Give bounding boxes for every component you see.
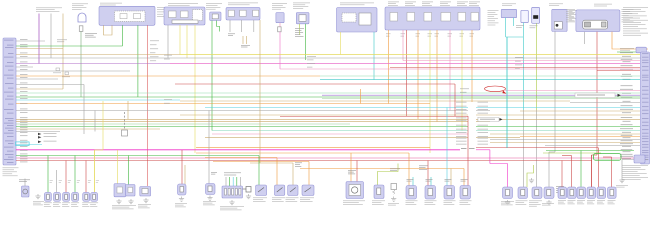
switch s1 [390,13,398,22]
washer pump M1 [503,187,513,199]
injector J2 label [425,201,437,205]
wire [427,161,429,186]
wire [506,36,523,38]
coil P3 pin [580,190,584,196]
sensor S1 pin [521,190,525,196]
coil P5 pin [600,190,604,196]
wire [408,153,410,186]
coil P2 label [568,200,576,204]
map lamp inner [142,189,148,194]
green highlight rect [594,154,622,161]
ground G313 [619,178,624,183]
lamp connector L5 [83,192,90,201]
switch bank title [388,2,480,6]
wire [258,156,260,186]
connector C3 [296,13,309,24]
sensor S2 pin [535,190,539,196]
wire [208,111,210,184]
injector connector J3 [444,186,455,200]
wire [463,169,465,186]
wire [612,32,648,49]
sensor B2 pin [377,188,381,195]
mid wire labels col F [164,99,172,103]
sensor S2 label [529,201,542,207]
coil connector P2 [568,187,577,199]
left module PCM [3,38,16,165]
ground G310 [505,200,510,205]
injector J4 pin [463,189,468,196]
lamp connector L4 [72,192,79,201]
wire [505,18,507,37]
wire [446,108,448,186]
relay K3 mark [290,188,296,193]
wire stub labels [556,186,564,193]
wire [122,25,124,46]
switch s2 [407,13,415,22]
wire [24,179,26,187]
wire labels [461,179,468,181]
switch s5 [458,13,466,22]
wire [571,156,573,188]
wire [596,32,598,155]
left module pin labels [4,40,14,163]
wire label [211,172,217,174]
wire [436,30,438,122]
module U3 inner b [359,13,371,25]
switch wire labels [386,34,474,37]
washer pump label [501,201,514,205]
wire cluster labels [419,166,428,170]
courtesy lamp E1 mark [23,189,28,194]
lamp B10 [78,13,86,22]
injector J1 label [406,201,418,205]
ground G302 [116,199,121,204]
wire [430,177,432,186]
wire [378,164,399,186]
injector J4 label [460,201,472,205]
lamp E1 label [19,180,30,182]
wire [38,14,40,64]
wire [56,170,58,192]
wire [146,25,148,186]
wire [611,157,613,187]
resistor R1 link [243,188,247,190]
coil P2 pin [570,190,574,196]
wire [184,165,186,184]
wire [229,20,231,32]
lamp L4 label [71,203,79,207]
coil P4 label [587,200,595,204]
switch s4 [441,13,451,22]
splice S2 [62,72,70,77]
right module wire labels [620,52,633,159]
wire label [295,163,302,167]
left module bottom note [3,168,19,177]
lamp B10 label [72,4,88,10]
wire [536,110,538,187]
page ref text top right [623,7,648,36]
coil P1 label [558,200,566,204]
relay K4 [302,185,314,196]
wire [584,32,586,44]
ground G308 [246,194,251,199]
wire [617,51,636,53]
mid wire labels col B [307,56,316,67]
switch bank [385,7,480,30]
fuse under C2 [278,27,281,32]
wire [179,25,181,55]
twisted pair outline [16,142,30,146]
wire [117,150,119,184]
sensor U4 dot [556,24,559,27]
injector J2 pin [428,189,433,196]
wire label [241,45,250,47]
wire label [77,180,80,183]
wire [429,30,431,153]
module U2 title [168,3,198,5]
gray wire inline label [478,117,503,121]
relay contact 1 [120,14,127,19]
wire [513,18,515,26]
ground G313 label [616,185,628,187]
wire [591,155,593,187]
module U2 inner c [193,10,203,21]
wire [62,14,64,90]
wire [74,156,76,193]
wire [549,151,555,153]
ground G309 [391,197,396,202]
coil P5 label [597,200,605,204]
wire [548,152,550,187]
wire [292,163,294,185]
ground G306 [207,196,212,201]
injector connector J2 [425,186,436,200]
wire [16,144,42,146]
dome lamp assembly [114,184,126,197]
wire [308,162,310,186]
ground G312 [546,200,551,205]
module U2 [164,7,205,25]
switch SW1 label [175,203,187,207]
ground G304 [143,198,148,203]
lamp connector L6 pin [93,194,96,199]
mid wire labels col E [164,55,172,60]
console connector [222,186,243,198]
lamp connector L2 [54,192,61,201]
lamp connector L1 [44,192,51,201]
module U1 inner dashed [115,11,146,22]
sensor U4 [552,9,567,31]
wire [246,36,248,44]
sensor B2 [374,185,384,199]
wire [417,30,419,119]
mid wire labels col D [515,57,523,69]
lamp connector L4 pin [74,194,77,199]
switch s6 [471,13,479,22]
diode D1 bar [533,15,538,19]
stub label [57,40,67,43]
wire [128,156,130,185]
wire [194,25,196,153]
wire [167,25,169,58]
connector C4 [501,9,517,17]
relay coil mark [585,22,591,27]
wire [211,21,213,131]
wire [80,31,82,97]
wire [402,30,404,61]
wire [621,160,623,179]
connector C4 title [502,4,516,7]
lamp connector L6 [91,192,98,201]
wire [450,169,452,186]
wire [592,154,598,156]
injector connector J4 [460,186,471,200]
mid wire labels col C [460,89,469,93]
sensor U4 inner [554,22,562,29]
wire labels [445,179,452,181]
wire [47,156,49,193]
inspection highlight oval [485,86,507,94]
right module pin labels [642,53,649,160]
wire [253,20,255,32]
sensor S3 pin [547,190,551,196]
cargo lamp assembly [126,185,135,197]
multi pin labels [224,173,241,176]
harness vertical wires [39,14,507,193]
fuel pump label [343,201,365,205]
courtesy lamp E1 [22,186,30,197]
off-page arrow [38,133,57,136]
sensor B2 label [372,201,385,205]
wire [299,24,301,35]
connector C4 label [488,10,499,25]
fuse block [226,7,260,20]
relay K2 label [272,198,285,202]
wire elbow [527,165,534,187]
diode D1 label [530,26,538,29]
wire [461,30,463,131]
module U3 [337,8,378,33]
injector J3 label [444,201,456,205]
washer pump M1 pin [506,190,510,196]
coil connector P5 [597,187,606,199]
wire labels [407,179,414,181]
wire [217,21,220,32]
module U2 inner bus [172,20,198,23]
relay module [576,10,620,32]
wire cluster labels [390,169,400,171]
wire [50,14,52,59]
map lamp assembly [140,187,151,197]
right module BCM [641,52,650,164]
relay K1 [256,185,267,196]
relay K3 label [286,198,299,202]
wire [242,36,244,44]
lamp connector L3 pin [65,194,68,199]
sensor connector S1 [518,187,528,199]
injector J3 pin [447,189,452,196]
relay K2 mark [277,188,283,193]
wire [406,30,408,116]
lamp connector L5 pin [85,194,88,199]
connector C6 [634,155,645,163]
wire [279,23,281,27]
wire [388,30,390,104]
map lamp label [138,204,151,208]
connector C1 [210,12,221,21]
wire [373,32,375,80]
wire tan loop [104,25,113,35]
wire [279,32,281,69]
wire [561,161,563,188]
wire label [96,180,99,183]
coil P1 pin [561,190,565,196]
relay pin mark [602,22,607,27]
console connector pins [225,189,241,196]
relay contact 2 [134,14,141,19]
wire [536,23,538,110]
module U3 inner a [342,13,356,22]
connector C3 title [293,3,310,9]
wire label [59,180,62,183]
fuel pump inner [349,185,361,196]
wire [356,161,358,182]
relay K4 label [300,198,314,202]
switch SW2 label [203,201,216,205]
wire [591,155,593,187]
module U1 title [100,3,122,5]
connector C2 title [272,3,287,9]
wire [94,150,96,192]
coil connector P1 [558,187,567,199]
lamp L3 label [62,203,70,207]
diode D1 [532,7,540,23]
switch s3 [424,13,432,22]
coil connector P4 [587,187,596,199]
wire [449,30,451,111]
wire [489,150,491,164]
dome lamp inner [117,187,123,193]
wire [506,37,508,148]
cargo lamp inner [128,187,133,192]
sensor B3 label [388,203,399,205]
connector C3 inner [299,15,306,21]
inline fuse F2 [521,10,528,22]
wire [137,25,139,97]
relay left label [566,9,575,22]
wire label [68,180,71,183]
switch SW1 [178,184,187,195]
inline connector marks [461,147,475,150]
connector C5 label [620,48,634,51]
switch SW1 pin [180,187,184,193]
wire [65,161,67,193]
lamp connector L3 [63,192,70,201]
ground G303 [128,199,133,204]
ground G301 label [33,201,44,205]
switch SW2 pin [208,186,212,192]
wire [523,110,525,187]
coil connector P6 [608,187,617,199]
inline connector C2 gap [468,102,476,148]
module U2 inner a [169,11,177,18]
coil P3 label [577,200,585,204]
coil connector P3 [577,187,586,199]
relay K3 [288,185,298,196]
lamp L2 label [53,203,61,207]
connector C1 title [206,3,222,9]
wire [412,177,414,186]
sensor U4 right label [569,10,578,21]
off-page arrow [38,136,57,139]
multi pin wires [226,177,240,186]
wire label [295,28,304,37]
wire [350,153,352,182]
wire [598,148,600,188]
inline sensor B3 [391,184,397,190]
wire label [88,180,91,183]
coil P6 pin [610,190,614,196]
wire [580,151,582,188]
connector C2 [276,13,284,23]
sensor connector S2 [532,187,542,199]
wire [276,158,278,186]
fuse f3 [253,10,259,16]
sensor connector S3 [544,187,554,199]
wire labels [348,170,356,174]
fuse F2 label [516,25,524,28]
module U1 [99,6,155,25]
wire [340,32,342,55]
ground G307 [229,200,234,205]
wire [471,30,473,143]
fuel pump module [346,182,364,199]
fuse block title [228,3,258,6]
ground G301 [35,194,40,199]
sensor S3 label [542,203,554,205]
ground G311 [529,178,534,183]
wire [305,24,307,60]
resistor R1 [246,187,251,193]
wire [181,150,183,184]
module U3 title [340,3,374,6]
relay K2 [275,185,285,196]
wire label [85,33,97,37]
wire [85,161,87,193]
wire [241,20,243,32]
lamp assembly labels [112,205,136,209]
off-page arrow [38,141,57,144]
wire [507,164,509,188]
module U1 right label [157,7,167,17]
relay module title [594,4,612,6]
console label [220,206,244,210]
connector C5 [636,47,646,53]
mid wire labels col A [150,41,159,62]
sensor S1 label [516,201,528,205]
coil P4 pin [590,190,594,196]
wire [186,25,188,58]
relay inner [583,20,608,29]
lamp L5 label [82,203,90,207]
sensor U4 title [549,4,563,7]
switch SW2 [206,184,216,195]
fuse f2 [240,10,246,16]
lamp L1 label [44,203,52,207]
inline connector C2 labels [456,102,488,145]
splice S1 [53,68,61,73]
wire label [50,180,53,183]
